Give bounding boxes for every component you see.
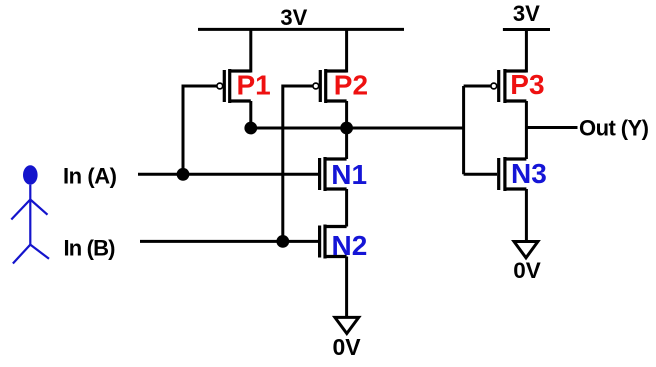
wire: rail to P2 source <box>345 29 348 72</box>
transistor P1 (PMOS) <box>217 69 251 103</box>
wire: to P3 gate <box>464 85 491 88</box>
wire: P2 drain to output node <box>345 101 348 128</box>
svg-text:0V: 0V <box>513 258 541 283</box>
svg-text:P2: P2 <box>334 70 368 101</box>
svg-text:Out (Y): Out (Y) <box>579 116 649 141</box>
svg-text:N3: N3 <box>511 158 547 189</box>
transistor P3 (PMOS) <box>491 69 527 103</box>
transistor N3 (NMOS) <box>499 157 527 191</box>
wire: P2 gate to In(B) <box>283 86 313 241</box>
svg-text:P3: P3 <box>510 69 544 100</box>
ground symbol (left 0V) <box>335 317 359 333</box>
wire: N3 source to ground <box>525 189 528 242</box>
svg-text:N2: N2 <box>332 230 368 261</box>
wire: rail to P3 source <box>525 30 528 73</box>
svg-text:3V: 3V <box>513 1 540 26</box>
wire: output Out(Y) <box>526 126 577 129</box>
wire: NAND output to inverter gates vertical <box>462 86 465 174</box>
wire: In (A) input <box>138 173 318 176</box>
svg-text:0V: 0V <box>333 334 362 360</box>
svg-text:3V: 3V <box>280 5 307 30</box>
node: In(A) junction <box>177 168 190 181</box>
person icon (input source figure) <box>11 165 49 263</box>
wire: N2 source to ground <box>345 257 348 318</box>
wire: P3 drain to N3 drain <box>525 101 528 159</box>
power rail 3V (left) <box>198 28 404 31</box>
wire: P1 gate to In(A) <box>183 86 217 174</box>
power rail 3V (right) <box>503 28 550 31</box>
wire: output node down to N1 drain <box>345 128 348 159</box>
ground symbol (right 0V) <box>514 242 538 258</box>
wire: to N3 gate <box>464 173 497 176</box>
transistor P2 (PMOS) <box>313 69 347 103</box>
wire: NAND output horizontal <box>251 127 464 130</box>
svg-text:P1: P1 <box>237 70 271 101</box>
node: P1 drain junction <box>244 122 257 135</box>
wire: P1 drain to output node <box>249 101 252 128</box>
wire: In (B) input <box>140 240 318 243</box>
svg-text:In (A): In (A) <box>63 163 117 188</box>
transistor N1 (NMOS) <box>320 157 347 191</box>
node: P2 drain junction <box>340 122 353 135</box>
wire: rail to P1 source <box>249 29 252 72</box>
wire: N1 source to N2 drain <box>345 189 348 227</box>
svg-text:In (B): In (B) <box>64 236 116 261</box>
node: In(B) junction <box>276 235 289 248</box>
svg-text:N1: N1 <box>331 159 367 190</box>
transistor N2 (NMOS) <box>320 225 347 259</box>
